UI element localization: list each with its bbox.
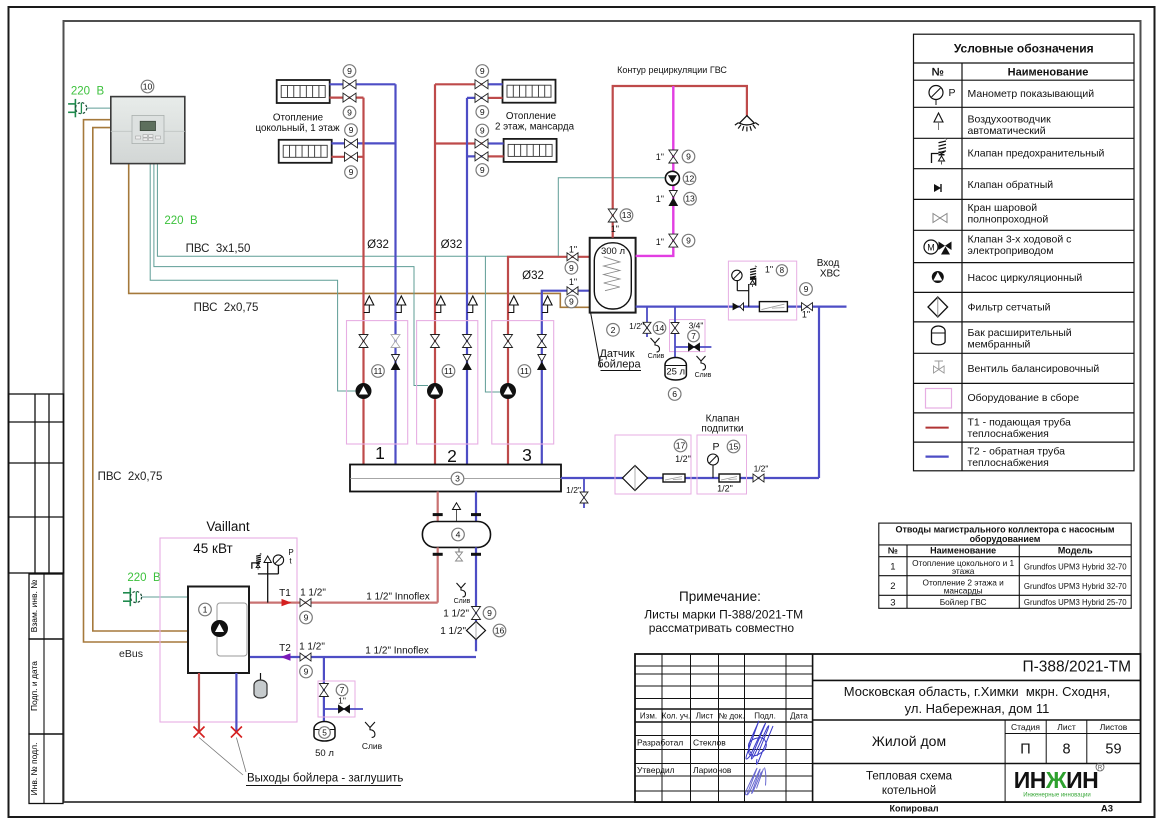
valve 13 on DHW red <box>608 209 617 222</box>
pump group 2 pink box <box>417 321 478 444</box>
gauge in box 8 <box>732 270 742 280</box>
svg-text:мансарды: мансарды <box>944 586 983 596</box>
circle 9 on T2 <box>300 665 313 678</box>
svg-text:9: 9 <box>347 108 352 118</box>
circle 12 pump <box>683 172 696 185</box>
circle 4 separator <box>452 528 465 541</box>
legend symbol: Т2 blue line <box>926 456 949 458</box>
svg-text:Р: Р <box>948 87 955 99</box>
svg-text:9: 9 <box>686 152 691 162</box>
svg-text:Слив: Слив <box>695 372 712 379</box>
pump inside Vaillant <box>212 621 228 637</box>
valve radiator 3 upper <box>475 80 488 89</box>
valve 9 on magenta top <box>669 150 678 163</box>
svg-text:3: 3 <box>890 597 895 608</box>
shower head <box>735 116 759 132</box>
flange red bottom <box>433 553 443 556</box>
svg-text:10: 10 <box>143 82 153 92</box>
svg-text:220 В: 220 В <box>71 86 105 98</box>
svg-text:Отопление: Отопление <box>506 111 557 122</box>
check valve in box 8 <box>733 303 740 311</box>
pump 12 <box>665 171 679 185</box>
circle 14 <box>653 322 666 335</box>
svg-text:1/2": 1/2" <box>717 484 733 494</box>
T1 pipe from boiler <box>249 601 438 603</box>
security group pink box 8 <box>728 261 796 320</box>
expansion tank 6 (25 л) <box>665 358 686 380</box>
svg-text:1": 1" <box>569 277 577 287</box>
pink box 7b (25l tank group) <box>670 320 706 352</box>
signature 2 (blue) <box>745 768 765 795</box>
svg-text:11: 11 <box>444 366 453 376</box>
svg-text:Разработал: Разработал <box>637 738 683 748</box>
svg-text:Московская область, г.Химки м: Московская область, г.Химки мкрн. Сходня… <box>844 684 1110 699</box>
pump 11 group 3 <box>501 384 516 399</box>
svg-text:Дата: Дата <box>790 712 808 721</box>
drain symbol near 25l tank <box>695 356 712 379</box>
svg-text:9: 9 <box>349 167 354 177</box>
plug symbol top <box>68 99 87 117</box>
svg-text:9: 9 <box>804 284 809 294</box>
svg-text:Т1 - подающая труба: Т1 - подающая труба <box>968 417 1071 429</box>
svg-text:1 1/2": 1 1/2" <box>440 626 466 637</box>
svg-text:этажа: этажа <box>952 566 975 576</box>
wire: eBus brown inner (controller to boiler) <box>93 128 188 631</box>
valve radiator 2 red <box>345 152 358 161</box>
drain symbol near T2 vertical <box>454 583 471 605</box>
legend symbol: воздухоотводчик <box>934 113 943 130</box>
svg-text:Тепловая схема: Тепловая схема <box>866 771 953 783</box>
svg-text:9: 9 <box>480 165 485 175</box>
valve radiator 4 upper <box>475 139 488 148</box>
svg-text:1/2": 1/2" <box>675 454 691 464</box>
pipe: red riser group 1 <box>362 98 364 465</box>
drain symbol under valve 14 <box>648 338 665 360</box>
circle 9 blue boiler valve <box>565 295 578 308</box>
svg-text:Т1: Т1 <box>279 588 291 599</box>
svg-text:11: 11 <box>520 366 529 376</box>
wire: 220V plug to Vaillant (teal) <box>142 596 188 598</box>
coil inside 300l tank <box>604 257 620 291</box>
valve on blue riser 1 <box>391 335 400 348</box>
circle 9 r4 bottom <box>476 164 489 177</box>
svg-text:3/4": 3/4" <box>689 321 704 331</box>
pipe: radiator 1 blue line <box>329 83 395 85</box>
union in box 17 <box>663 474 685 482</box>
pipe: collector to separator red <box>437 492 439 522</box>
pipe: radiator 4 upper (red from riser, blue stub) <box>435 142 488 144</box>
legend symbol: вентиль балансировочный <box>934 361 945 373</box>
svg-text:№ док.: № док. <box>719 712 745 721</box>
gauge in box 15 <box>708 454 719 478</box>
svg-text:Инв. № подл.: Инв. № подл. <box>29 743 39 796</box>
svg-text:Оборудование в сборе: Оборудование в сборе <box>968 392 1080 404</box>
svg-text:теплоснабжения: теплоснабжения <box>968 457 1049 469</box>
valve on T2 <box>300 653 311 661</box>
title block left grid <box>635 654 813 802</box>
circle 9 r4 top <box>476 124 489 137</box>
T1 arrow <box>282 599 292 606</box>
callout датчик бойлера <box>591 313 601 368</box>
legend symbol: кран шаровой <box>933 214 947 223</box>
circle 11 group 3 <box>518 365 531 378</box>
svg-text:Слив: Слив <box>454 598 471 605</box>
svg-text:Р: Р <box>712 441 719 453</box>
wire: teal branch to pump 3 <box>485 256 501 392</box>
wire: 220V plug to controller (teal) <box>87 107 111 109</box>
svg-text:9: 9 <box>480 126 485 136</box>
svg-text:eBus: eBus <box>119 648 143 660</box>
svg-text:Жилой дом: Жилой дом <box>872 733 946 749</box>
radiator 2 <box>279 140 332 163</box>
red X cap 1 <box>194 727 205 738</box>
svg-text:Стадия: Стадия <box>1011 722 1040 732</box>
legend symbol: бак расширительный <box>932 326 946 345</box>
circle 3 collector <box>451 472 464 485</box>
svg-text:1/2": 1/2" <box>566 485 581 495</box>
svg-text:1: 1 <box>375 443 385 463</box>
svg-text:9: 9 <box>304 613 309 623</box>
legend symbol: клапан обратный <box>934 184 941 192</box>
pipe: radiator 3 upper (red from riser, blue stub) <box>435 83 488 85</box>
svg-text:17: 17 <box>676 441 686 451</box>
valve on tank 50l line <box>319 684 328 697</box>
svg-text:полнопроходной: полнопроходной <box>968 214 1049 226</box>
svg-text:1: 1 <box>890 562 895 573</box>
svg-text:7: 7 <box>691 331 696 341</box>
left margin block: Подп. и дата <box>29 639 63 734</box>
pipe: make-up line from collector <box>561 477 819 479</box>
svg-text:9: 9 <box>349 125 354 135</box>
svg-text:ИНЖИН: ИНЖИН <box>1014 767 1099 793</box>
svg-text:13: 13 <box>685 194 695 204</box>
boiler safety valve (rotated small) <box>252 553 262 569</box>
circle 15 <box>727 440 740 453</box>
svg-text:Слив: Слив <box>362 741 383 751</box>
svg-text:Воздухоотводчик: Воздухоотводчик <box>968 114 1052 126</box>
expansion vessel under boiler <box>254 673 267 698</box>
circle 11 group 1 <box>372 365 385 378</box>
svg-text:Grundfos UPM3 Hybrid 25-70: Grundfos UPM3 Hybrid 25-70 <box>1024 598 1127 607</box>
box 8 internal stem <box>737 281 748 307</box>
pipe: DHW red from tank top <box>613 86 747 238</box>
circle 9 r3 top <box>476 65 489 78</box>
title block stage grid <box>813 720 1141 802</box>
svg-text:2 этаж, мансарда: 2 этаж, мансарда <box>495 122 575 133</box>
svg-text:Бак расширительный: Бак расширительный <box>968 327 1072 339</box>
callout lines to caps <box>199 738 246 776</box>
pipe: blue riser group 2 <box>466 98 468 465</box>
svg-text:Листы марки П-388/2021-ТМ: Листы марки П-388/2021-ТМ <box>644 607 803 621</box>
valve on red riser 2 <box>431 335 440 348</box>
svg-text:6: 6 <box>672 389 677 399</box>
pipe: magenta recirculation <box>636 86 674 256</box>
svg-text:Инженерные инновации: Инженерные инновации <box>1023 793 1091 799</box>
svg-text:1": 1" <box>656 237 664 247</box>
svg-text:14: 14 <box>655 323 665 333</box>
filter diamond 17 <box>623 466 648 491</box>
pink box 7a (tank valve group) <box>318 681 355 717</box>
svg-text:ул. Набережная, дом 11: ул. Набережная, дом 11 <box>905 701 1050 716</box>
svg-text:Наименование: Наименование <box>930 546 996 556</box>
svg-text:Взам. инв. №: Взам. инв. № <box>29 580 39 633</box>
svg-text:15: 15 <box>729 442 739 452</box>
svg-text:оборудованием: оборудованием <box>970 534 1041 544</box>
pipe: radiator 1 red line <box>329 96 363 98</box>
valve on red riser 1 <box>359 335 368 348</box>
valve radiator 3 lower <box>475 93 488 102</box>
svg-text:1 1/2": 1 1/2" <box>300 588 326 599</box>
svg-text:№: № <box>932 67 944 79</box>
valve radiator 2 blue <box>345 139 358 148</box>
signature 1 (blue) <box>746 721 773 764</box>
valve on blue riser 3 <box>537 335 546 348</box>
air vent on red riser 3 <box>508 296 518 313</box>
svg-text:Ø32: Ø32 <box>522 270 544 282</box>
Vaillant assembly pink box <box>160 538 297 722</box>
svg-text:Vaillant: Vaillant <box>206 519 250 534</box>
separator air vent <box>453 503 461 522</box>
svg-text:Отводы магистрального коллекто: Отводы магистрального коллектора с насос… <box>895 525 1114 535</box>
circle label 10 <box>141 80 154 93</box>
ИНЖИН logo <box>1014 763 1104 799</box>
drain valve stub of tank 50l <box>324 708 363 710</box>
wire: teal A (controller to pump 3 and pump 12) <box>157 164 558 257</box>
svg-text:Листов: Листов <box>1100 722 1128 732</box>
radiator 3 <box>503 80 556 103</box>
svg-text:Кран шаровой: Кран шаровой <box>968 202 1038 214</box>
svg-text:ПВС 2х0,75: ПВС 2х0,75 <box>98 471 163 483</box>
svg-text:цокольный, 1 этаж: цокольный, 1 этаж <box>255 123 340 134</box>
svg-text:Примечание:: Примечание: <box>679 589 761 604</box>
boiler gauge <box>273 555 283 565</box>
svg-text:Манометр показывающий: Манометр показывающий <box>968 88 1095 100</box>
svg-text:1": 1" <box>569 245 577 255</box>
left margin upper stamp block <box>9 394 64 573</box>
svg-text:1": 1" <box>611 224 619 234</box>
svg-text:50 л: 50 л <box>315 748 334 759</box>
svg-text:Насос циркуляционный: Насос циркуляционный <box>968 272 1083 284</box>
pipe: down to 25l tank <box>674 307 676 358</box>
flange blue top <box>471 513 481 516</box>
svg-text:Отопление: Отопление <box>273 113 324 124</box>
svg-text:9: 9 <box>480 107 485 117</box>
svg-text:Изм.: Изм. <box>640 712 657 721</box>
svg-text:Утвердил: Утвердил <box>637 765 675 775</box>
svg-text:1 1/2": 1 1/2" <box>299 642 325 653</box>
svg-text:9: 9 <box>480 66 485 76</box>
svg-text:8: 8 <box>1062 742 1070 758</box>
pipe: separator down red (T1) <box>437 547 439 602</box>
boiler safety group stem <box>258 556 279 603</box>
svg-text:бойлера: бойлера <box>597 359 641 371</box>
left margin block: Взам. инв. № <box>29 574 63 639</box>
pipe: blue riser group 3 to 300l coil <box>542 291 605 465</box>
valve on red riser 3 <box>504 335 513 348</box>
svg-text:1 1/2" Innoflex: 1 1/2" Innoflex <box>365 646 429 657</box>
svg-text:9: 9 <box>569 297 574 307</box>
valve on make-up line <box>753 474 764 482</box>
svg-text:3: 3 <box>522 445 532 465</box>
wire: boiler sensor brown (controller to 300l tank) <box>129 164 590 308</box>
left margin block: Инв. № подл. <box>29 734 63 804</box>
circle 9 r2 top <box>345 124 358 137</box>
circle 8 <box>776 265 787 276</box>
pipe: T2 branch down to tank 50l <box>323 657 325 722</box>
svg-text:Т2: Т2 <box>279 643 291 654</box>
svg-text:5: 5 <box>322 727 327 737</box>
Vaillant boiler 1 <box>188 587 249 674</box>
hydraulic separator 4 <box>422 522 490 548</box>
wire: teal C (controller to pump 1) <box>150 164 356 391</box>
svg-text:Ø32: Ø32 <box>441 239 463 251</box>
circle 9 magenta top <box>682 150 695 163</box>
svg-text:1": 1" <box>338 696 346 706</box>
svg-text:59: 59 <box>1105 742 1121 758</box>
check valve on blue riser 3 <box>538 355 546 370</box>
circle 9 red boiler valve <box>565 262 578 275</box>
svg-text:9: 9 <box>487 608 492 618</box>
wire: teal B (controller to pump 2) <box>154 164 428 386</box>
legend symbol: манометр <box>929 86 956 106</box>
svg-text:Ларионов: Ларионов <box>693 765 732 775</box>
circle 13 dhw red <box>620 209 633 222</box>
svg-text:11: 11 <box>374 366 383 376</box>
circle 11 group 2 <box>442 365 455 378</box>
svg-text:рассматривать совместно: рассматривать совместно <box>649 621 795 635</box>
pipe: blue riser group 1 <box>394 84 396 464</box>
box 15 (make-up valve group) <box>697 435 747 494</box>
svg-text:Бойлер ГВС: Бойлер ГВС <box>940 597 987 607</box>
svg-text:Подп. и дата: Подп. и дата <box>29 661 39 711</box>
svg-text:М: М <box>927 243 935 253</box>
svg-text:Лист: Лист <box>696 712 714 721</box>
drain stub valve 14 <box>646 307 648 337</box>
pump 11 group 2 <box>428 384 443 399</box>
collector drain stub <box>583 478 585 508</box>
check valve on blue riser 2 <box>463 355 471 370</box>
radiator 4 <box>504 139 557 162</box>
svg-text:ПВС 2х0,75: ПВС 2х0,75 <box>194 302 259 314</box>
drain stub of 25l group <box>675 346 711 348</box>
radiator 1 <box>277 80 330 103</box>
svg-text:13: 13 <box>622 210 632 220</box>
T2 arrow <box>281 653 291 660</box>
svg-text:Подл.: Подл. <box>754 712 776 721</box>
svg-text:Наименование: Наименование <box>1008 67 1089 79</box>
valve 1" on blue into boiler <box>567 287 578 295</box>
circle 7 tank25 <box>688 330 700 342</box>
svg-text:1": 1" <box>656 152 664 162</box>
svg-text:№: № <box>888 546 898 556</box>
svg-text:9: 9 <box>304 667 309 677</box>
valve 9 on magenta bottom <box>669 234 678 247</box>
svg-text:подпитки: подпитки <box>701 424 743 435</box>
svg-text:220 В: 220 В <box>164 215 198 227</box>
separator drain valve <box>456 547 463 561</box>
svg-text:Фильтр сетчатый: Фильтр сетчатый <box>968 302 1051 314</box>
flange blue bottom <box>471 553 481 556</box>
air vent on red riser 1 <box>364 296 374 313</box>
union in box 15 <box>719 474 740 482</box>
flange red top <box>433 513 443 516</box>
boiler output red stub (to plug) <box>198 673 200 731</box>
valve 1" on red into boiler <box>567 253 578 261</box>
svg-text:2: 2 <box>890 581 895 592</box>
collector 3 <box>350 465 561 492</box>
svg-text:4: 4 <box>456 530 461 540</box>
wire: eBus brown outer (controller to boiler) <box>84 120 189 642</box>
svg-text:электроприводом: электроприводом <box>968 245 1054 257</box>
svg-text:Grundfos UPM3 Hybrid 32-70: Grundfos UPM3 Hybrid 32-70 <box>1024 582 1127 591</box>
circle 7 tank50 <box>336 684 348 696</box>
svg-text:Т2 - обратная труба: Т2 - обратная труба <box>968 446 1066 458</box>
pipe: red riser group 3 to 300l coil <box>508 257 606 465</box>
circle 9 r2 bottom <box>345 166 358 179</box>
svg-text:8: 8 <box>780 266 785 275</box>
svg-text:Клапан предохранительный: Клапан предохранительный <box>968 148 1105 160</box>
svg-text:Слив: Слив <box>648 353 665 360</box>
circle 13 magenta <box>684 192 697 205</box>
svg-text:1/2": 1/2" <box>629 321 644 331</box>
legend symbol: клапан 3-х ходовой с электроприводом <box>924 240 952 255</box>
svg-text:2: 2 <box>611 325 616 335</box>
svg-text:45 кВт: 45 кВт <box>193 541 232 556</box>
filter 16 diamond <box>467 622 486 640</box>
legend symbol: Т1 red line <box>926 427 949 429</box>
pipe: cold water main line <box>636 306 847 308</box>
svg-text:П: П <box>1020 742 1030 758</box>
air vent on blue riser 3 <box>542 296 552 313</box>
circle 17 <box>674 439 687 452</box>
valve on blue riser 2 <box>463 335 472 348</box>
valve on 25l line <box>671 323 679 334</box>
expansion tank 5 (50 л) <box>314 722 335 741</box>
check valve on blue riser 1 <box>392 355 400 370</box>
drain symbol near tank 50l <box>362 722 383 751</box>
boiler output blue stub (to plug) <box>235 673 237 731</box>
T2 pipe to boiler <box>249 656 476 658</box>
svg-text:R: R <box>1098 766 1103 772</box>
svg-text:Кол. уч.: Кол. уч. <box>662 712 690 721</box>
svg-text:Стеклов: Стеклов <box>693 738 726 748</box>
pipe: radiator 4 lower (blue from riser, red stub) <box>467 155 488 157</box>
circle 9 xvc <box>800 283 813 296</box>
pipe: radiator 2 red line <box>331 156 363 158</box>
valve radiator 4 lower <box>475 152 488 161</box>
valve on XVC line <box>802 303 813 311</box>
air vent on blue riser 2 <box>467 296 477 313</box>
pipe: separator down blue (T2) <box>475 547 477 651</box>
legend symbol: насос <box>932 272 943 283</box>
svg-text:Условные обозначения: Условные обозначения <box>954 42 1094 56</box>
legend symbol: оборудование в сборе (pink square) <box>926 389 952 409</box>
box 17 (filter group) <box>615 435 691 494</box>
svg-text:300 л: 300 л <box>601 246 625 257</box>
svg-text:1/2": 1/2" <box>754 464 769 474</box>
collector outlets table frame <box>879 523 1131 608</box>
black drain bowtie tank50 <box>339 705 350 713</box>
svg-text:1: 1 <box>203 605 208 615</box>
legend table frame <box>914 34 1135 471</box>
svg-text:3: 3 <box>455 474 460 484</box>
svg-text:котельной: котельной <box>882 785 936 797</box>
svg-text:Копировал: Копировал <box>889 804 938 814</box>
svg-text:мембранный: мембранный <box>968 339 1031 351</box>
pump 11 group 1 <box>356 384 371 399</box>
svg-text:А3: А3 <box>1101 804 1113 815</box>
legend symbol: клапан предохранительный <box>932 138 948 165</box>
